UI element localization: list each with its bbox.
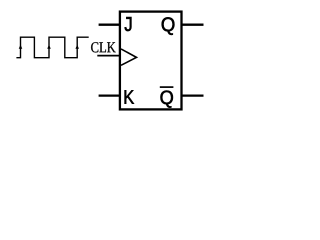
pin label J (125, 17, 132, 31)
clock waveform wire (16, 37, 88, 58)
rising edge arrow 3 (75, 45, 79, 49)
wire K input (99, 94, 121, 96)
wire CLK net (97, 55, 121, 57)
pin label Qbar (161, 91, 173, 108)
wire J input (99, 24, 121, 26)
pin label Q (162, 17, 175, 35)
pin label K (125, 90, 134, 103)
Qbar overbar (160, 86, 174, 88)
label CLK (91, 42, 116, 52)
rising edge arrow 2 (47, 45, 51, 49)
rising edge arrow 1 (19, 45, 23, 49)
clock edge triangle (121, 49, 137, 65)
wire Qbar output (181, 94, 204, 96)
flip-flop U1 body (120, 12, 182, 110)
wire Q output (181, 24, 204, 26)
